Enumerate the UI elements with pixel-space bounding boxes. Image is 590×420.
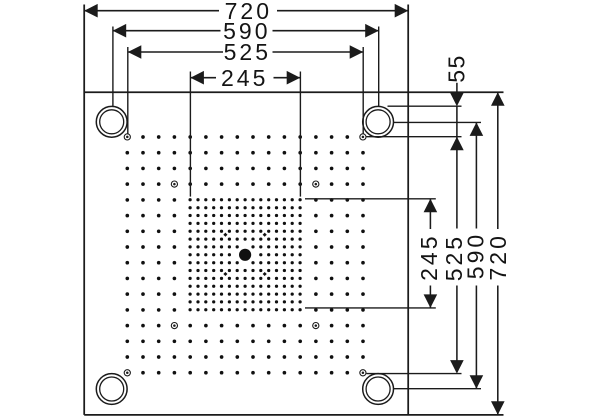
spray circle top-left <box>96 106 127 137</box>
screw inner top-left <box>171 181 177 187</box>
screw corner bottom-left <box>124 370 130 376</box>
dimension 590 right <box>470 122 484 135</box>
leader circle top tangent <box>388 105 462 107</box>
diamond mark upper-right <box>263 233 267 237</box>
dimension 590 top <box>113 30 221 32</box>
svg-text:245: 245 <box>416 234 442 281</box>
extension line 245 left <box>189 72 191 197</box>
screw corner top-right <box>360 134 366 140</box>
diamond mark lower-right <box>263 272 267 276</box>
leader dense zone bottom <box>305 307 436 309</box>
screw corner bottom-right <box>360 370 366 376</box>
leader circle center bottom-right <box>394 388 481 390</box>
svg-text:720: 720 <box>485 233 511 280</box>
extension line 590 left <box>112 27 114 107</box>
svg-text:525: 525 <box>224 39 271 65</box>
extension line 525 left <box>127 47 129 134</box>
extension line 525 right <box>362 47 364 134</box>
extension line 245 right <box>299 72 301 197</box>
leader screw center top-right <box>366 136 461 138</box>
extension line 590 right <box>378 27 380 107</box>
dimension 720 right <box>491 92 505 106</box>
svg-text:245: 245 <box>221 65 268 91</box>
spray circle bottom-right <box>363 374 394 405</box>
dimension 525 top <box>128 51 223 53</box>
leader dense zone top <box>305 198 436 200</box>
spray circle top-right <box>363 106 394 137</box>
plate right edge + extension to 720 dim <box>407 5 409 415</box>
diamond mark lower-left <box>223 272 227 276</box>
spray circle bottom-left <box>96 374 127 405</box>
svg-text:55: 55 <box>443 54 469 83</box>
sparse spray nozzle dot grid <box>141 135 145 139</box>
diamond mark upper-left <box>223 233 227 237</box>
dimension 245 right <box>424 199 438 213</box>
screw corner top-left <box>124 134 130 140</box>
screw inner bottom-right <box>313 323 319 329</box>
dimension 720 top <box>84 10 219 12</box>
leader screw center bottom-right <box>366 373 461 375</box>
plate left edge + extension to 720 dim <box>83 5 85 415</box>
dimension 245 top <box>190 77 216 79</box>
leader circle center top-right <box>394 121 481 123</box>
center outlet dot <box>239 249 251 261</box>
screw inner bottom-left <box>171 323 177 329</box>
dense central spray nozzle dot grid <box>188 198 191 201</box>
screw inner top-right <box>313 181 319 187</box>
plate top edge + extension leader <box>84 91 503 93</box>
dimension 525 right <box>450 137 464 151</box>
plate bottom edge + extension leader <box>84 414 503 416</box>
